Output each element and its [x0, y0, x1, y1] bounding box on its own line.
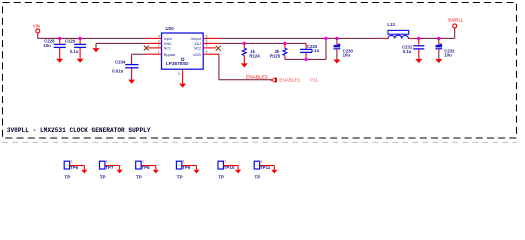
svg-text:R125: R125 — [270, 53, 281, 58]
svg-text:3V0PLL - LMX2531 CLOCK GENERAT: 3V0PLL - LMX2531 CLOCK GENERATOR SUPPLY — [7, 127, 151, 134]
svg-text:P11: P11 — [310, 77, 318, 82]
svg-text:Input: Input — [164, 37, 172, 41]
pin 8 stub — [203, 53, 219, 55]
ground under C229 — [77, 59, 84, 63]
svg-text:0.1u: 0.1u — [403, 49, 412, 54]
ground under C232 — [435, 59, 442, 63]
ground under C231 — [415, 59, 422, 63]
svg-text:ENABLE3: ENABLE3 — [279, 77, 300, 82]
pin 9 pad wire — [178, 69, 183, 84]
svg-text:C234: C234 — [115, 59, 126, 64]
svg-text:VIN: VIN — [33, 24, 40, 29]
svg-text:Output: Output — [190, 37, 201, 41]
junction dot R125 — [283, 42, 286, 45]
pin 6 stub — [203, 42, 219, 44]
ground under TP7 — [117, 170, 123, 174]
junction dot C230 — [335, 37, 338, 40]
schematic section dashed border — [3, 3, 517, 139]
svg-text:C229: C229 — [65, 38, 76, 43]
pin 3 stub — [146, 42, 161, 44]
junction dot C233 bottom — [304, 58, 307, 61]
capacitor C229 0.1u — [65, 38, 86, 59]
node VIN terminal — [33, 24, 40, 39]
test point TP9 — [176, 160, 196, 180]
svg-text:1: 1 — [106, 160, 108, 164]
resistor R125 2k — [270, 43, 287, 59]
ground under R124 — [241, 63, 248, 67]
svg-text:1: 1 — [158, 50, 160, 54]
svg-text:TP: TP — [177, 175, 183, 180]
svg-text:1: 1 — [224, 160, 226, 164]
svg-text:TP8: TP8 — [141, 165, 150, 170]
ground under TP11 — [271, 170, 277, 174]
node 3V0PLL terminal — [448, 17, 464, 28]
off-page connector ENABLE3 — [271, 77, 319, 82]
svg-text:TP6: TP6 — [70, 165, 79, 170]
ground under TP6 — [81, 170, 87, 174]
no-connect X pin 7 — [216, 46, 221, 51]
wire Output rail — [219, 28, 455, 39]
ground under TP9 — [194, 170, 200, 174]
svg-text:TP: TP — [254, 175, 260, 180]
wire U20 Bypass pin to C234 — [132, 54, 147, 64]
capacitor C233 0.1u — [300, 44, 319, 59]
wire ADJ rail — [219, 43, 306, 49]
wire nS/D to ENABLE3 — [219, 54, 271, 79]
svg-text:10u: 10u — [43, 43, 51, 48]
pin 7 stub — [203, 47, 216, 49]
ground under TP8 — [153, 170, 159, 174]
junction dot C229 — [78, 37, 81, 40]
svg-text:10u: 10u — [343, 52, 351, 57]
svg-text:nS/D: nS/D — [193, 53, 201, 57]
svg-text:ENABLE3: ENABLE3 — [246, 75, 268, 81]
junction dot loop to output rail — [324, 37, 327, 40]
no-connect X pin 2 — [144, 46, 149, 51]
junction dot C228 — [58, 37, 61, 40]
ground under TP10 — [235, 170, 241, 174]
junction dot C232 — [437, 37, 440, 40]
svg-text:3V0PLL: 3V0PLL — [448, 17, 464, 22]
svg-text:1: 1 — [183, 160, 185, 164]
svg-text:10u: 10u — [444, 52, 452, 57]
svg-text:5: 5 — [206, 34, 208, 38]
ground under C234 — [128, 80, 135, 84]
svg-text:R124: R124 — [249, 53, 260, 58]
svg-text:TP11: TP11 — [260, 165, 271, 170]
svg-text:ADJ: ADJ — [194, 42, 201, 46]
inductor L13 ferrite bead — [387, 22, 408, 39]
svg-text:Bypass: Bypass — [164, 53, 176, 57]
op-amp U20 LP3878SD regulator body — [162, 26, 204, 69]
svg-text:2: 2 — [158, 44, 160, 48]
pin 2 stub — [148, 47, 161, 49]
next section gray dashed divider — [3, 141, 517, 143]
pin 1 stub — [146, 53, 161, 55]
resistor R124 1k — [242, 43, 260, 63]
test point TP11 — [254, 160, 274, 180]
svg-text:1: 1 — [71, 160, 73, 164]
svg-text:NC1: NC1 — [164, 46, 171, 50]
test point TP10 — [218, 160, 238, 180]
svg-text:7: 7 — [206, 44, 208, 48]
test point TP8 — [136, 160, 156, 180]
svg-text:1: 1 — [142, 160, 144, 164]
ground under C230 — [333, 60, 340, 64]
svg-text:TP: TP — [100, 175, 106, 180]
pin 5 stub — [203, 37, 219, 39]
svg-text:TP10: TP10 — [224, 165, 235, 170]
svg-text:3: 3 — [158, 39, 160, 43]
svg-text:TP: TP — [136, 175, 142, 180]
ground under U20 — [179, 84, 186, 88]
junction dot C231 — [417, 37, 420, 40]
test point TP6 — [64, 160, 84, 180]
pin 4 stub — [146, 37, 161, 39]
junction dot R124 — [243, 42, 246, 45]
svg-text:8: 8 — [206, 50, 208, 54]
svg-text:TP: TP — [64, 175, 70, 180]
wire feedback loop bottom — [285, 38, 326, 59]
svg-text:U20: U20 — [166, 26, 175, 31]
svg-text:TP9: TP9 — [182, 165, 191, 170]
svg-text:4: 4 — [158, 34, 160, 38]
capacitor C228 10u — [43, 38, 65, 59]
svg-text:1: 1 — [261, 160, 263, 164]
capacitor C232 10u polarized — [435, 38, 455, 59]
svg-text:0.1u: 0.1u — [70, 49, 79, 54]
svg-text:0.01u: 0.01u — [112, 69, 123, 74]
test point TP7 — [100, 160, 120, 180]
wire U20 GND pin to ground — [96, 43, 146, 48]
svg-text:6: 6 — [206, 39, 208, 43]
wire VIN rail to U20 Input — [38, 37, 147, 39]
capacitor C230 10u polarized — [334, 38, 354, 59]
svg-text:NC2: NC2 — [194, 46, 201, 50]
svg-text:TP7: TP7 — [105, 165, 114, 170]
ground under C228 — [56, 59, 63, 63]
svg-text:TP: TP — [218, 175, 224, 180]
svg-text:9: 9 — [178, 72, 180, 76]
svg-text:L13: L13 — [387, 22, 395, 27]
svg-text:0.1u: 0.1u — [311, 48, 320, 53]
capacitor C234 0.01u — [112, 59, 138, 80]
capacitor C231 0.1u — [402, 38, 424, 59]
svg-text:LP3878SD: LP3878SD — [166, 61, 189, 66]
svg-text:GND: GND — [164, 42, 172, 46]
ground at U20 GND — [93, 48, 100, 52]
